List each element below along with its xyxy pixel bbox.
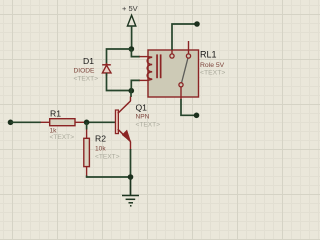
wire jog to relay coil pin 1	[131, 49, 140, 57]
relay pin stub top-left	[171, 50, 173, 54]
wire junction to diode top	[107, 49, 132, 65]
relay switch contact pole	[170, 54, 174, 58]
diode D1	[102, 63, 111, 76]
svg-text:D1: D1	[83, 56, 94, 66]
wire relay top-left pin to +5V rail	[172, 24, 197, 50]
relay coil pin1 stub	[140, 56, 149, 58]
node dangling end top	[194, 21, 200, 27]
resistor R2	[84, 129, 90, 175]
svg-text:R2: R2	[95, 133, 106, 143]
node junction bottom (coil bottom / diode / collector)	[129, 88, 135, 94]
svg-text:<TEXT>: <TEXT>	[50, 134, 75, 141]
relay switch contact throw	[186, 54, 190, 58]
node base junction	[84, 120, 90, 126]
resistor R1	[41, 119, 85, 126]
node input terminal	[8, 120, 14, 126]
wire ground stem	[130, 177, 132, 196]
svg-text:Role 5V: Role 5V	[200, 62, 225, 69]
relay RL1 body	[147, 41, 198, 100]
wire R1 to base junction	[85, 121, 116, 123]
svg-text:<TEXT>: <TEXT>	[136, 121, 161, 128]
relay switch common	[179, 83, 183, 87]
relay core bar 1	[156, 54, 158, 78]
transistor Q1	[115, 97, 130, 151]
relay pin stub top-right	[188, 41, 190, 54]
node junction top (coil top / diode / +5V)	[129, 46, 135, 52]
wire input to R1	[11, 121, 42, 123]
relay coil	[147, 57, 152, 81]
svg-text:10k: 10k	[95, 145, 106, 152]
relay core bar 2	[160, 54, 162, 78]
svg-text:<TEXT>: <TEXT>	[95, 153, 120, 160]
power +5V	[122, 4, 138, 49]
ground	[122, 196, 139, 206]
wire jog to relay coil pin 2	[131, 80, 140, 90]
relay pin stub bottom	[180, 87, 182, 100]
wire emitter down to ground	[130, 149, 132, 177]
relay coil pin2 stub	[140, 79, 149, 81]
node dangling end right	[194, 113, 200, 119]
svg-text:R1: R1	[50, 108, 61, 118]
svg-text:NPN: NPN	[136, 114, 150, 121]
node ground junction	[128, 174, 134, 180]
wire R2 bottom to ground rail	[87, 176, 131, 178]
svg-text:Q1: Q1	[136, 102, 148, 112]
svg-text:DIODE: DIODE	[74, 68, 95, 75]
wire junction down to R2	[86, 122, 88, 129]
wire junction to Q1 collector	[130, 91, 132, 97]
wire relay common pin down	[181, 99, 196, 115]
wire diode bottom to junction	[107, 73, 132, 91]
svg-text:<TEXT>: <TEXT>	[74, 75, 99, 82]
svg-text:+ 5V: + 5V	[122, 4, 138, 13]
svg-text:<TEXT>: <TEXT>	[200, 70, 225, 77]
svg-text:RL1: RL1	[200, 50, 217, 60]
relay switch blade	[182, 58, 188, 82]
